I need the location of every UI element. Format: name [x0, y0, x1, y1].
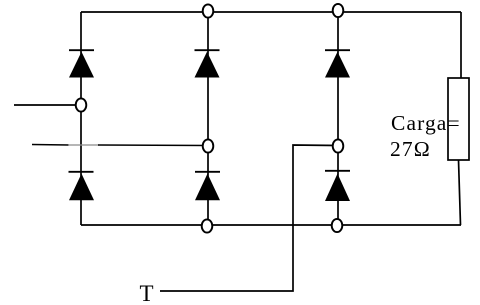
svg-text:27Ω: 27Ω: [390, 137, 431, 161]
svg-text:Carga=: Carga=: [391, 111, 461, 135]
svg-text:T: T: [140, 281, 154, 305]
